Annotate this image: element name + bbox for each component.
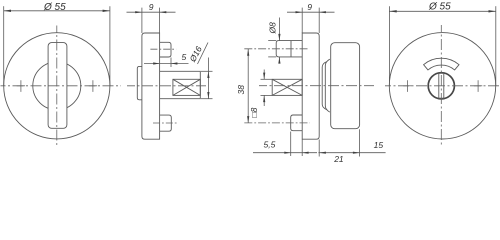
coin-slot boss side view2 <box>137 66 142 99</box>
svg-text:Ø8: Ø8 <box>268 22 278 35</box>
knob neck ring inner view3 <box>325 59 330 112</box>
dimension 5 view2 <box>144 52 189 67</box>
rosette plate view2 <box>142 33 160 139</box>
bottom fixing pin view3 <box>291 115 303 131</box>
inner circle view1 <box>33 62 81 110</box>
svg-text:Ø 55: Ø 55 <box>43 2 66 13</box>
top fixing pin view2 <box>160 42 171 57</box>
main axis centerline view3 <box>259 85 374 87</box>
dimension 38 view3 <box>236 49 249 123</box>
dimension 21 and 15 view3 <box>318 129 385 164</box>
square spindle box view2 <box>173 79 200 95</box>
vertical centerline view1 <box>56 26 58 147</box>
horizontal centerline view4 <box>385 85 500 87</box>
svg-text:38: 38 <box>236 85 246 95</box>
thumbturn boss circle view4 <box>428 73 454 99</box>
svg-text:9: 9 <box>307 2 312 12</box>
outer circle Ø55 view1 <box>4 33 110 139</box>
bottom fixing pin view2 <box>160 115 172 131</box>
dimension Ø55 view1 <box>4 2 110 86</box>
svg-text:21: 21 <box>333 154 344 164</box>
top fixing pin Ø8 view3 <box>276 41 302 57</box>
thumbturn slot view1 <box>48 43 67 129</box>
vertical centerline view4 <box>440 25 442 146</box>
dimension Ø16 view2 <box>187 43 213 99</box>
rosette plate view3 <box>302 33 319 139</box>
hole center mark left view4 <box>403 80 411 92</box>
svg-text:Ø 55: Ø 55 <box>428 2 451 13</box>
main axis centerline view2 <box>127 85 206 87</box>
dimension 9 view2 <box>127 2 176 33</box>
thumbturn wing view4 <box>424 58 459 70</box>
square spindle box view3 <box>272 79 302 95</box>
hub cylinder Ø16 view2 <box>160 71 201 98</box>
top pin centerline view2 <box>150 48 176 50</box>
outer circle Ø55 view4 <box>389 33 495 139</box>
hole center mark right view1 <box>89 80 97 92</box>
knob neck ring outer view3 <box>322 62 327 110</box>
dimension Ø55 view4 <box>389 2 495 86</box>
dimension 9 view3 <box>287 2 335 33</box>
top pin step line view3 <box>290 41 292 57</box>
top pin centerline view3 <box>244 48 308 50</box>
dimension square-8 view3 <box>249 70 272 118</box>
svg-text:5,5: 5,5 <box>264 139 276 149</box>
dimension 5,5 view3 <box>253 132 317 157</box>
svg-text:15: 15 <box>374 140 384 150</box>
bottom pin centerline view3 <box>244 122 309 124</box>
svg-text:□8: □8 <box>249 107 259 117</box>
hole center mark right view4 <box>474 80 482 92</box>
thumbturn grip slot view4 <box>439 73 444 98</box>
dimension Ø8 view3 <box>268 18 281 64</box>
svg-text:5: 5 <box>182 52 187 62</box>
svg-text:9: 9 <box>149 2 154 12</box>
turn knob cylinder view3 <box>331 43 360 129</box>
hole center mark left view1 <box>17 80 25 92</box>
horizontal centerline view1 <box>1 85 122 87</box>
bottom pin centerline view2 <box>153 122 177 124</box>
